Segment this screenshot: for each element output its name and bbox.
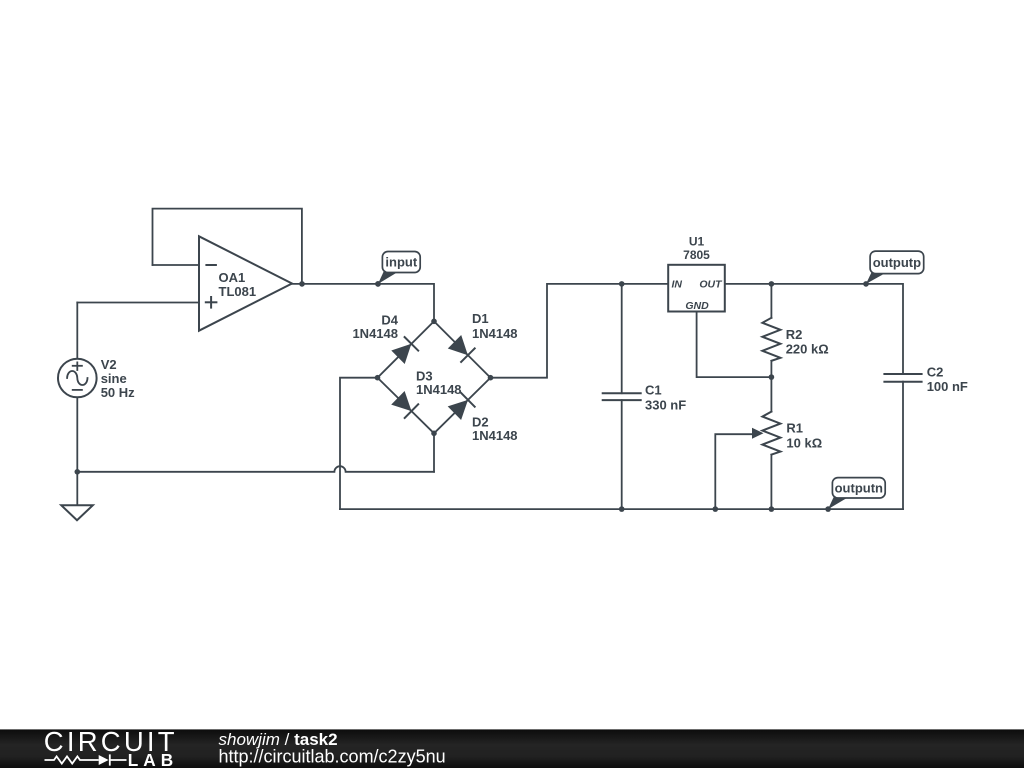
CircuitLab logo resistor-diode line: [45, 754, 127, 765]
junction bridge right: [488, 375, 494, 381]
svg-text:input: input: [385, 255, 417, 270]
svg-text:OA1: OA1: [219, 270, 246, 285]
junction input tail: [375, 281, 381, 287]
svg-text:50 Hz: 50 Hz: [101, 385, 135, 400]
wire R1 top lead: [770, 377, 772, 412]
wire bridge edge left-top (D4 lead): [378, 321, 435, 377]
wire C2 bottom lead right rail: [902, 382, 904, 509]
capacitor C1 330 nF: [603, 383, 687, 413]
wire bottom rail outputn net: [340, 508, 903, 510]
wire ground stub: [76, 472, 78, 506]
diode D1: [448, 335, 475, 362]
wire V2 bottom lead: [76, 397, 78, 471]
wire bridge edge left-bottom (D3 lead): [378, 378, 435, 434]
svg-text:V2: V2: [101, 357, 117, 372]
svg-text:outputn: outputn: [835, 481, 883, 496]
wire bridge edge bottom-right (D2 lead): [434, 378, 491, 434]
junction R2/R1/GND: [769, 374, 775, 380]
wire U1 GND to R2/R1 junction: [697, 312, 772, 378]
wire R1 wiper to bottom rail: [715, 434, 757, 509]
svg-text:D2: D2: [472, 414, 489, 429]
junction C1 bottom: [619, 506, 625, 512]
wire C1 bottom lead: [621, 400, 623, 509]
wire R1 bottom lead: [770, 455, 772, 509]
junction bridge left: [375, 375, 381, 381]
svg-text:U1: U1: [689, 234, 705, 248]
svg-text:10 kΩ: 10 kΩ: [786, 436, 822, 451]
wire op-amp inverting input: [153, 264, 200, 266]
wire U1 OUT to outputp and C2: [725, 284, 903, 374]
wire V2 top lead: [76, 303, 78, 359]
svg-text:C1: C1: [645, 383, 662, 398]
voltage source V2 sine 50 Hz: [58, 357, 135, 400]
wire bridge right node to U1 IN: [491, 284, 669, 378]
junction R1 bottom: [769, 506, 775, 512]
resistor R2 220 k: [762, 318, 828, 361]
svg-text:330 nF: 330 nF: [645, 397, 686, 412]
junction V2/ground: [75, 469, 81, 475]
svg-text:R2: R2: [786, 327, 803, 342]
wire R2 top lead: [770, 284, 772, 318]
potentiometer R1 10 k: [752, 412, 822, 455]
svg-text:IN: IN: [672, 279, 683, 291]
regulator U1 7805: [668, 234, 725, 312]
wire bridge edge top-right (D1 lead): [434, 321, 491, 377]
svg-text:C2: C2: [927, 364, 944, 379]
wire C1 top lead: [621, 284, 623, 393]
wire R2 bottom lead: [770, 361, 772, 377]
svg-text:http://circuitlab.com/c2zy5nu: http://circuitlab.com/c2zy5nu: [219, 747, 446, 767]
svg-text:sine: sine: [101, 371, 127, 386]
svg-text:OUT: OUT: [699, 279, 723, 291]
junction bridge top: [431, 319, 437, 325]
wire bridge left node to bottom rail: [340, 378, 378, 509]
svg-text:outputp: outputp: [873, 255, 921, 270]
svg-text:LAB: LAB: [128, 750, 178, 768]
ground: [61, 505, 93, 520]
junction R2 top: [769, 281, 775, 287]
junction wiper bottom: [713, 506, 719, 512]
svg-text:7805: 7805: [683, 248, 710, 262]
svg-text:D1: D1: [472, 311, 489, 326]
wire ground rail with hop over vertical wire: [77, 466, 434, 472]
svg-text:R1: R1: [786, 421, 803, 436]
junction bridge bottom: [431, 431, 437, 437]
diode D3: [391, 391, 418, 418]
svg-text:1N4148: 1N4148: [472, 326, 518, 341]
svg-text:1N4148: 1N4148: [472, 428, 518, 443]
svg-text:1N4148: 1N4148: [416, 382, 462, 397]
svg-text:GND: GND: [685, 300, 709, 312]
node flag outputn: [825, 478, 885, 512]
op-amp OA1 TL081: [199, 236, 292, 330]
junction feedback/output: [299, 281, 305, 287]
wire feedback loop: [153, 209, 302, 284]
node flag input: [375, 252, 420, 287]
wire bridge bottom node lead: [433, 433, 435, 472]
svg-text:220 kΩ: 220 kΩ: [786, 341, 829, 356]
node flag outputp: [863, 251, 923, 287]
diode D4: [391, 337, 418, 364]
junction C1 top: [619, 281, 625, 287]
capacitor C2 100 nF: [884, 364, 968, 394]
wire op-amp output to bridge top: [292, 284, 434, 321]
svg-text:TL081: TL081: [219, 284, 257, 299]
diode D2: [448, 393, 475, 420]
svg-text:100 nF: 100 nF: [927, 379, 968, 394]
wire op-amp noninverting input from V2: [77, 302, 199, 304]
svg-text:1N4148: 1N4148: [352, 326, 398, 341]
